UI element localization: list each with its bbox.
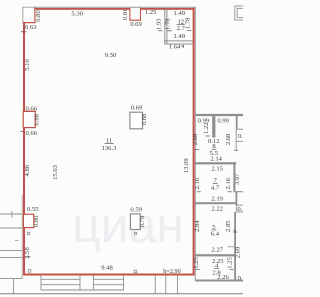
svg-text:0.88: 0.88: [141, 113, 148, 125]
svg-text:0.88: 0.88: [34, 113, 41, 125]
neighbour vertical bottom-left: [13, 278, 15, 293]
svg-text:1.78: 1.78: [184, 17, 191, 29]
column C1 centre of room 11: [130, 112, 143, 129]
svg-text:2.16: 2.16: [225, 177, 232, 189]
svg-text:2.19: 2.19: [211, 195, 223, 202]
rooms 5-4 right wall: [234, 212, 236, 281]
svg-text:2.27: 2.27: [211, 246, 223, 253]
opening tick room 5 right: [228, 246, 237, 248]
svg-text:0.99: 0.99: [217, 117, 229, 124]
svg-text:0.4: 0.4: [237, 206, 243, 213]
svg-text:2.14: 2.14: [210, 156, 222, 163]
tick below 1.22: [206, 135, 210, 137]
room 4 bottom wall: [196, 280, 243, 282]
svg-text:0.80: 0.80: [33, 215, 40, 227]
svg-text:4.7: 4.7: [211, 184, 220, 191]
svg-text:2.68: 2.68: [225, 133, 232, 145]
wire: grey right outer line: [194, 7, 196, 281]
small square below C2: [134, 233, 136, 235]
svg-text:1.78: 1.78: [165, 18, 172, 30]
room 7 right wall: [233, 163, 235, 192]
step line right: [233, 191, 243, 193]
neighbour line 4 left: [0, 257, 23, 259]
wall below step: [236, 192, 238, 205]
svg-text:4.86: 4.86: [24, 164, 31, 176]
svg-text:1.25: 1.25: [193, 257, 200, 269]
small square bottom-left corner: [28, 270, 31, 273]
wall: red top wall segment B: [140, 8, 194, 10]
svg-text:2.22: 2.22: [211, 205, 223, 212]
ticks room 7: [197, 191, 201, 193]
lower wall stub 3 below bottom wall: [177, 276, 179, 294]
window band bottom edge: [41, 289, 124, 291]
ground line across bottom: [0, 293, 243, 295]
small square below P2: [27, 232, 29, 234]
wire: grey top outer line: [23, 6, 196, 8]
svg-text:0.: 0.: [238, 133, 243, 140]
grey box top right edge: [235, 6, 244, 20]
room 8 right wall upper: [236, 115, 238, 129]
svg-text:2.68: 2.68: [192, 133, 199, 145]
svg-text:1.49: 1.49: [174, 10, 186, 17]
pilaster P2 on left wall: [23, 214, 33, 227]
svg-text:13.09: 13.09: [183, 158, 190, 174]
room 8 right wall lower thin: [235, 141, 237, 150]
svg-text:0.55: 0.55: [27, 206, 39, 213]
svg-text:1.64: 1.64: [169, 44, 181, 51]
svg-text:1.25: 1.25: [145, 9, 157, 16]
svg-text:циан: циан: [72, 197, 184, 253]
box 0.4 right edge: [236, 205, 244, 212]
wall: red left wall: [23, 23, 25, 276]
svg-text:6.4: 6.4: [211, 231, 220, 238]
lower wall stub 2 below bottom wall: [165, 276, 167, 294]
tick below pilaster P1: [21, 131, 23, 133]
svg-text:№: №: [233, 229, 238, 234]
svg-text:5.30: 5.30: [71, 11, 83, 18]
svg-text:0.59: 0.59: [130, 206, 142, 213]
neighbour line 2 left: [0, 227, 23, 229]
ticks room 4: [196, 268, 200, 270]
svg-text:0.80: 0.80: [35, 10, 42, 22]
svg-text:2.85: 2.85: [225, 220, 232, 232]
svg-text:0.69: 0.69: [130, 21, 142, 28]
room 8 bottom wall: [195, 162, 237, 164]
lower wall stub 1 below bottom wall: [154, 276, 156, 294]
svg-text:1.49: 1.49: [174, 33, 186, 40]
svg-text:9.50: 9.50: [105, 52, 117, 59]
svg-text:1.22: 1.22: [203, 122, 210, 134]
svg-text:9.48: 9.48: [101, 265, 113, 272]
wall: red right wall: [193, 8, 195, 276]
tick left wall 5.10: [21, 31, 27, 33]
svg-text:0.66: 0.66: [26, 130, 38, 137]
ticks 2.68 dims: [195, 149, 199, 151]
svg-text:1.93: 1.93: [155, 18, 162, 30]
svg-text:2.15: 2.15: [211, 165, 223, 172]
small square on bottom wall: [134, 270, 137, 273]
svg-text:5.10: 5.10: [24, 59, 31, 71]
room 5 bottom wall: [195, 254, 236, 256]
neighbour tick small: [15, 240, 18, 242]
svg-text:h=2.90: h=2.90: [163, 268, 180, 275]
pilaster P1 on left wall: [23, 111, 35, 127]
room 12 bottom wall double line: [164, 40, 192, 42]
wire: grey left outer line lower part: [21, 195, 23, 279]
svg-text:15.03: 15.03: [52, 164, 59, 180]
column C2 lower centre of room 11: [130, 214, 140, 230]
svg-text:1.25: 1.25: [227, 257, 234, 269]
svg-text:0.63: 0.63: [25, 24, 37, 31]
svg-text:2.16: 2.16: [194, 177, 201, 189]
window A panes: [41, 278, 80, 280]
window B panes: [94, 278, 124, 280]
wall: red bottom wall: [23, 274, 195, 276]
window band below bottom wall: [40, 276, 42, 291]
neighbour line 5 left: [0, 277, 23, 279]
window box room 8 right: [236, 129, 244, 141]
svg-text:2.69: 2.69: [235, 246, 242, 258]
wire: grey left corner vertical: [22, 7, 24, 23]
tick below 2.58: [26, 256, 30, 258]
svg-text:0.81: 0.81: [122, 9, 129, 21]
wall: red top wall segment A: [35, 8, 130, 10]
tick marks room 12 dims: [158, 30, 162, 32]
svg-text:136.3: 136.3: [102, 145, 118, 152]
room 7 bottom wall: [195, 202, 236, 204]
svg-text:0.79: 0.79: [139, 215, 146, 227]
neighbour line 1 left: [0, 213, 23, 215]
corner box top-left pier: [23, 8, 35, 23]
svg-text:0.69: 0.69: [131, 105, 143, 112]
room 8 top wall: [195, 114, 243, 116]
pier box top middle: [130, 8, 140, 20]
svg-text:2.84: 2.84: [194, 220, 201, 232]
room 12 left wall double line: [164, 9, 166, 44]
neighbour line 3 left: [0, 250, 23, 252]
stub wall room 8: [212, 116, 215, 138]
